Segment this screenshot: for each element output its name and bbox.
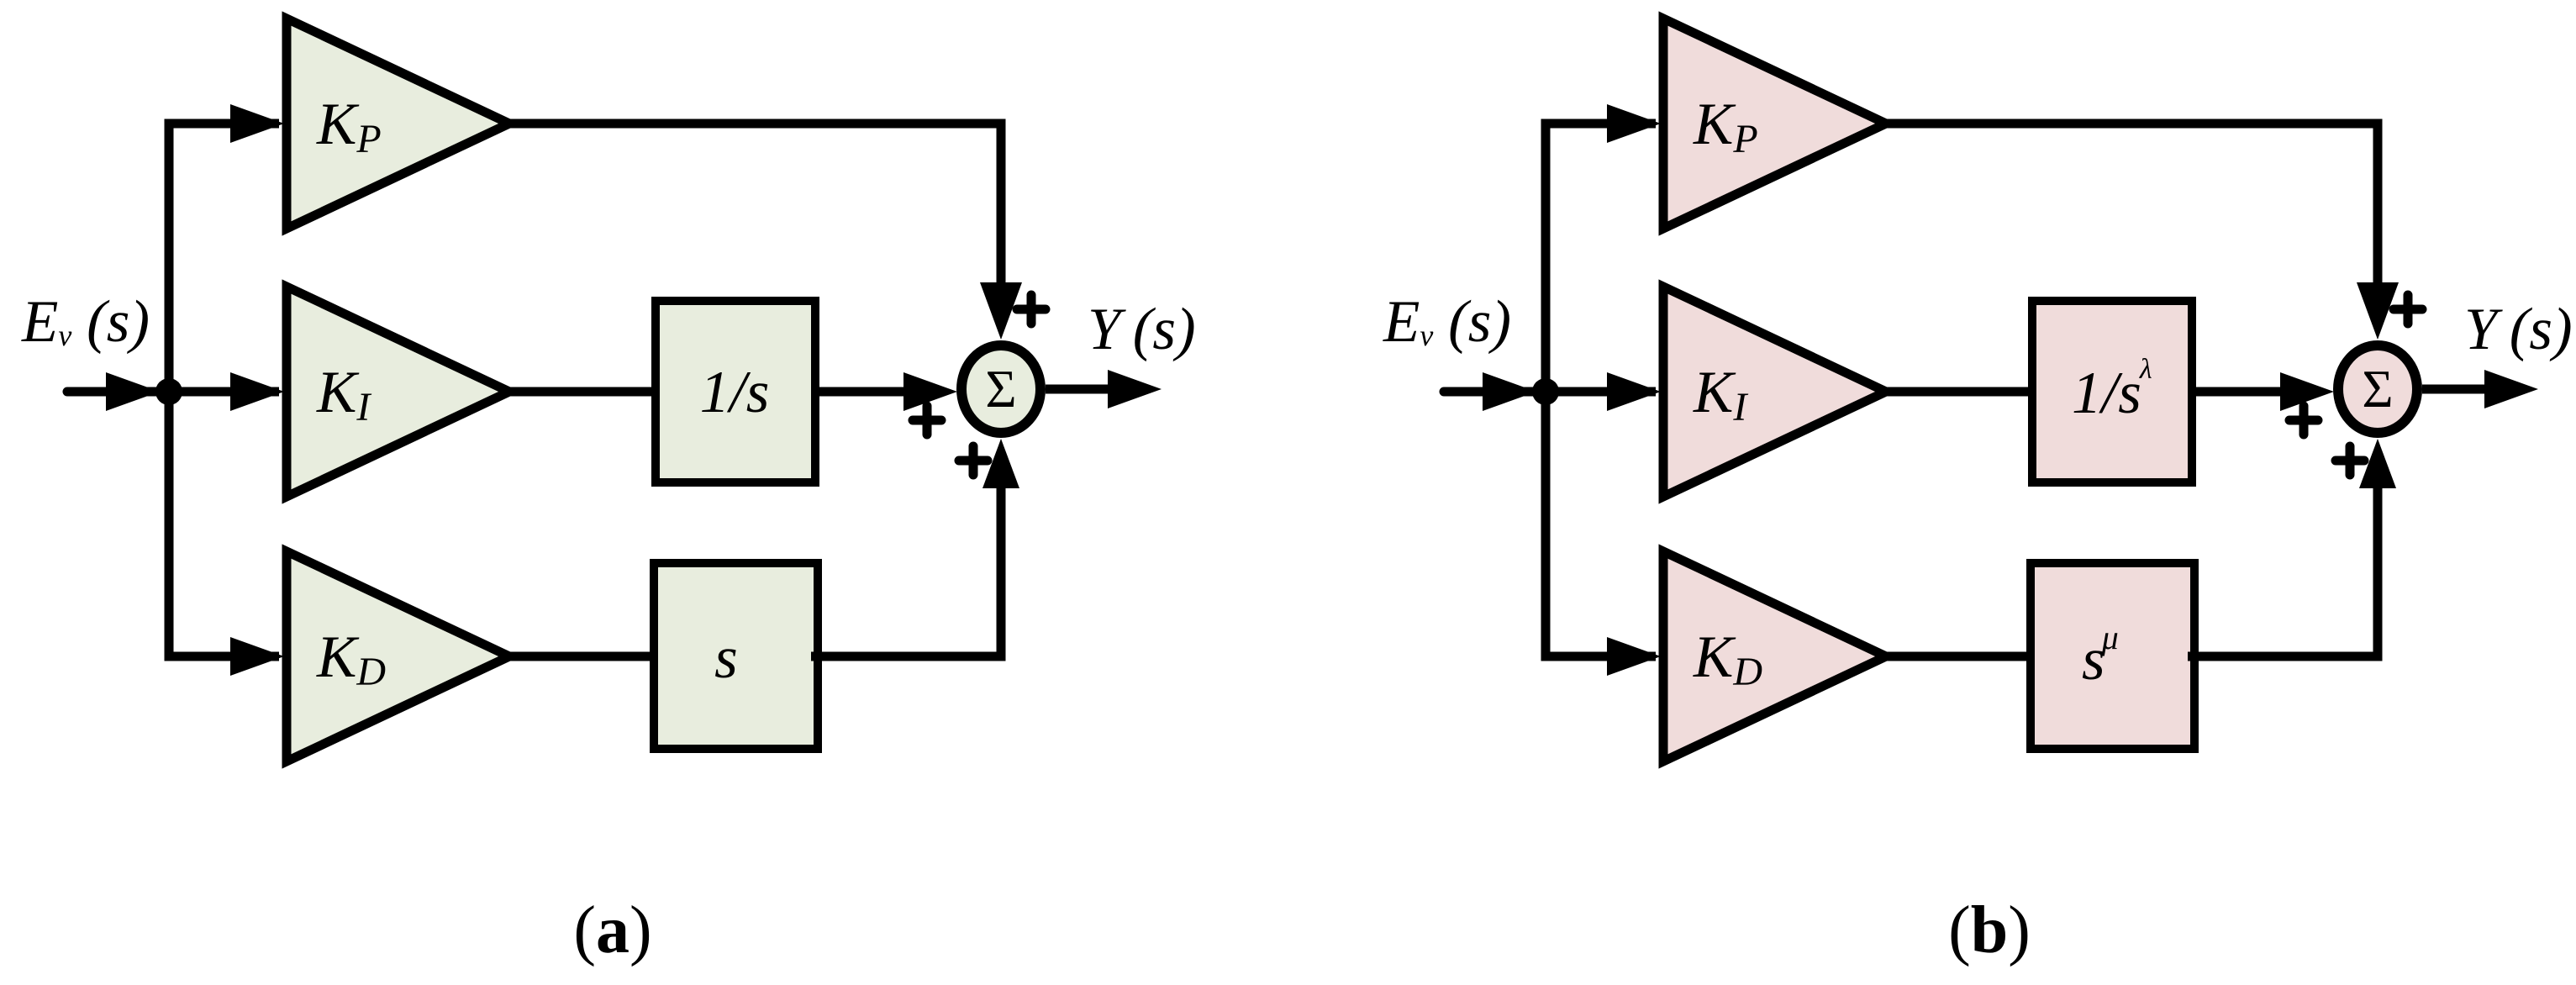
node junction dot (a) <box>155 378 182 405</box>
plus sign bottom input (b) <box>2336 446 2364 475</box>
svg-text:Σ: Σ <box>985 359 1016 419</box>
gain block KD (a) <box>287 551 509 761</box>
gain block KI (a) <box>287 287 509 497</box>
svg-text:1/sλ: 1/sλ <box>2072 354 2152 426</box>
wire feed to KI (a) <box>169 387 279 397</box>
gain block KP (a) <box>287 18 509 229</box>
arrowhead into KD (a) <box>230 637 284 676</box>
arrowhead into summer top (b) <box>2357 282 2399 340</box>
svg-text:Ev (s): Ev (s) <box>1383 289 1511 355</box>
wire KP to summer (a) <box>509 124 1001 294</box>
gain block KI (b) <box>1663 287 1886 497</box>
plus sign bottom input (a) <box>959 446 988 475</box>
arrowhead into summer left (a) <box>903 372 957 411</box>
wire differentiator to summer (b) <box>2188 479 2378 656</box>
plus sign middle input (a) <box>913 406 941 435</box>
plus sign top input (a) <box>1017 295 1046 324</box>
arrowhead into KP (b) <box>1607 104 1661 143</box>
arrowhead into KP (a) <box>230 104 284 143</box>
svg-text:(a): (a) <box>573 893 651 967</box>
svg-text:s: s <box>714 625 738 691</box>
arrowhead into summer bottom (b) <box>2359 439 2396 488</box>
integrator block 1/s^l (b) <box>2032 301 2192 482</box>
arrowhead into summer left (b) <box>2280 372 2334 411</box>
gain block KD (b) <box>1663 551 1886 761</box>
svg-text:Σ: Σ <box>2362 359 2393 419</box>
plus sign middle input (b) <box>2289 406 2318 435</box>
svg-text:(b): (b) <box>1948 893 2031 967</box>
diagram (b): fractional-order PID controller <box>1383 18 2573 967</box>
wire KI to integrator (a) <box>509 387 660 397</box>
diagram (a): classical PID controller <box>21 18 1196 967</box>
wire differentiator to summer (a) <box>811 479 1001 656</box>
svg-text:Y (s): Y (s) <box>2464 297 2573 362</box>
wire KD to differentiator (b) <box>1886 652 2036 661</box>
integrator block 1/s (a) <box>656 301 815 482</box>
arrowhead input (a) <box>106 372 160 411</box>
wire input Ev (b) <box>1444 387 1546 397</box>
differentiator block s^u (b) <box>2031 563 2194 749</box>
wire KI to integrator (b) <box>1886 387 2036 397</box>
arrowhead into KI (b) <box>1607 372 1661 411</box>
plus sign top input (b) <box>2394 295 2422 324</box>
arrowhead into summer bottom (a) <box>982 439 1019 488</box>
wire trunk with bends to KP and KD (b) <box>1546 124 1656 656</box>
wire integrator to summer (a) <box>811 387 916 397</box>
svg-text:1/s: 1/s <box>700 360 770 425</box>
wire output (a) <box>1046 385 1109 394</box>
node junction dot (b) <box>1532 378 1559 405</box>
arrowhead output (b) <box>2484 370 2538 408</box>
wire output (b) <box>2422 385 2486 394</box>
wire feed to KI (b) <box>1546 387 1656 397</box>
wire KP to summer (b) <box>1886 124 2378 294</box>
wire input Ev (a) <box>67 387 169 397</box>
arrowhead into KD (b) <box>1607 637 1661 676</box>
wire trunk with bends to KP and KD (a) <box>169 124 279 656</box>
arrowhead input (b) <box>1483 372 1536 411</box>
arrowhead into KI (a) <box>230 372 284 411</box>
svg-text:Ev (s): Ev (s) <box>21 289 150 355</box>
arrowhead into summer top (a) <box>980 282 1022 340</box>
wire integrator to summer (b) <box>2188 387 2293 397</box>
summer sigma (b) <box>2338 345 2417 433</box>
differentiator block s (a) <box>654 563 818 749</box>
svg-text:Y (s): Y (s) <box>1088 297 1196 362</box>
wire KD to differentiator (a) <box>509 652 660 661</box>
summer sigma (a) <box>961 345 1040 433</box>
arrowhead output (a) <box>1108 370 1162 408</box>
gain block KP (b) <box>1663 18 1886 229</box>
